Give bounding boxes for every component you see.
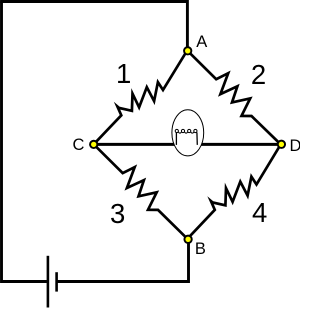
resistor 3 (node C to node B) [94,144,188,239]
wire top (left corner to node A) [2,0,188,50]
svg-text:A: A [196,33,207,51]
lamp (galvanometer bulb) [172,110,204,156]
resistor 2 (node A to node D) [187,50,281,144]
wire battery to node B [57,239,189,282]
svg-text:1: 1 [116,58,131,89]
node A [184,47,191,54]
wire bridge (node C to node D) [94,143,281,146]
svg-text:4: 4 [252,197,267,228]
svg-text:3: 3 [110,198,125,229]
resistor 4 (node B to node D) [187,144,280,238]
node B [184,236,191,243]
wire left side (top-left corner down to battery) [2,2,47,282]
svg-text:2: 2 [251,59,266,90]
svg-text:B: B [195,240,206,258]
resistor 1 (node C to node A) [94,50,188,144]
battery long plate (positive) [47,256,50,308]
node C [90,141,97,148]
svg-text:C: C [73,136,85,154]
svg-text:D: D [290,137,300,155]
battery short plate (negative) [55,272,58,291]
node D [278,141,285,148]
